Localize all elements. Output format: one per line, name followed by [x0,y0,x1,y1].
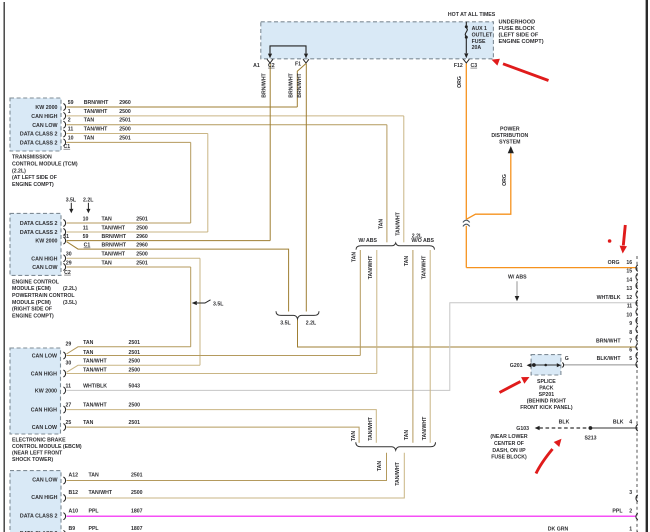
svg-text:TAN: TAN [89,473,100,479]
svg-text:C2: C2 [268,63,275,69]
svg-text:2960: 2960 [136,234,148,240]
svg-text:2: 2 [629,508,632,514]
svg-text:TAN: TAN [83,420,94,426]
svg-text:TAN/WHT: TAN/WHT [84,109,108,115]
svg-text:ENGINE COMPT): ENGINE COMPT) [12,313,54,319]
svg-text:(AT LEFT SIDE OF: (AT LEFT SIDE OF [12,175,57,181]
svg-text:(NEAR LOWER: (NEAR LOWER [490,434,527,440]
svg-text:TAN/WHT: TAN/WHT [102,252,126,258]
svg-text:2500: 2500 [136,252,148,258]
svg-text:TAN: TAN [404,256,410,267]
svg-text:ORG: ORG [457,76,463,88]
svg-text:BRN/WHT: BRN/WHT [297,72,303,97]
svg-text:30: 30 [66,361,72,367]
svg-text:3.5L: 3.5L [213,302,224,308]
svg-text:2501: 2501 [136,260,148,266]
svg-text:9: 9 [629,321,632,327]
svg-text:14: 14 [626,277,632,283]
svg-text:31: 31 [63,234,69,240]
svg-text:TAN: TAN [84,135,95,141]
svg-text:DK GRN: DK GRN [548,527,569,532]
svg-text:C3: C3 [470,63,477,69]
svg-text:C1: C1 [64,144,71,150]
svg-text:DATA CLASS 2: DATA CLASS 2 [20,513,58,519]
svg-text:B12: B12 [69,490,79,496]
svg-text:A10: A10 [69,508,79,514]
svg-text:(NEAR LEFT FRONT: (NEAR LEFT FRONT [12,451,63,457]
svg-text:POWER: POWER [500,126,520,132]
svg-text:20A: 20A [472,45,482,51]
svg-text:2500: 2500 [129,368,141,374]
svg-text:CAN LOW: CAN LOW [32,123,57,129]
svg-text:AUX 1: AUX 1 [472,26,487,32]
svg-text:SP201: SP201 [539,392,555,398]
svg-text:11: 11 [83,225,89,231]
svg-text:BRN/WHT: BRN/WHT [262,72,268,97]
svg-text:6: 6 [629,347,632,353]
svg-text:CAN HIGH: CAN HIGH [31,408,57,414]
svg-text:29: 29 [66,341,72,347]
svg-text:DATA CLASS 2: DATA CLASS 2 [20,141,58,147]
svg-text:4: 4 [629,419,632,425]
svg-text:8: 8 [629,330,632,336]
svg-text:KW 2000: KW 2000 [35,105,57,111]
svg-text:TAN: TAN [102,260,113,266]
svg-text:CAN HIGH: CAN HIGH [31,114,57,120]
svg-text:BLK/WHT: BLK/WHT [597,356,622,362]
svg-text:KW 2000: KW 2000 [35,389,57,395]
svg-text:1807: 1807 [131,508,143,514]
svg-text:BLK: BLK [559,419,570,425]
svg-text:2501: 2501 [129,340,141,346]
svg-text:TAN/WHT: TAN/WHT [84,127,108,133]
svg-text:1807: 1807 [131,526,143,532]
svg-text:2500: 2500 [136,225,148,231]
svg-text:(RIGHT SIDE OF: (RIGHT SIDE OF [12,307,52,313]
svg-text:3.5L: 3.5L [66,197,77,203]
svg-text:2501: 2501 [129,350,141,356]
svg-text:G201: G201 [510,363,523,369]
svg-text:13: 13 [626,286,632,292]
svg-text:CONTROL MODULE (EBCM): CONTROL MODULE (EBCM) [12,444,82,450]
svg-text:TAN/WHT: TAN/WHT [368,416,374,440]
svg-text:2.2L: 2.2L [306,321,317,327]
svg-text:TAN/WHT: TAN/WHT [89,490,113,496]
svg-text:BLK: BLK [613,419,624,425]
svg-text:1: 1 [629,527,632,532]
svg-text:DATA CLASS 2: DATA CLASS 2 [20,132,58,138]
svg-text:W/ ABS: W/ ABS [508,275,527,281]
svg-text:POWERTRAIN CONTROL: POWERTRAIN CONTROL [12,293,75,299]
svg-text:12: 12 [626,295,632,301]
svg-text:TAN/WHT: TAN/WHT [83,359,107,365]
svg-text:TAN/WHT: TAN/WHT [395,211,401,235]
svg-text:10: 10 [68,135,74,141]
svg-text:CENTER OF: CENTER OF [494,441,524,447]
svg-text:W/O ABS: W/O ABS [411,238,434,244]
svg-text:CAN HIGH: CAN HIGH [31,372,57,378]
svg-text:BRN/WHT: BRN/WHT [596,339,621,345]
svg-text:27: 27 [66,403,72,409]
svg-text:SYSTEM: SYSTEM [499,139,520,145]
svg-text:2960: 2960 [119,100,131,106]
svg-text:TAN: TAN [102,216,113,222]
svg-text:DASH, ON I/P: DASH, ON I/P [492,448,526,454]
svg-text:WHT/BLK: WHT/BLK [597,295,621,301]
svg-text:BRN/WHT: BRN/WHT [289,72,295,97]
svg-text:1: 1 [68,109,71,115]
svg-text:S213: S213 [584,436,596,442]
svg-text:DATA CLASS 2: DATA CLASS 2 [20,230,58,236]
svg-text:2500: 2500 [129,403,141,409]
svg-text:2960: 2960 [136,243,148,249]
svg-text:5: 5 [629,356,632,362]
svg-text:F12: F12 [454,63,463,69]
svg-text:(LEFT SIDE OF: (LEFT SIDE OF [499,33,539,39]
svg-text:ORG: ORG [608,260,620,266]
svg-text:TAN: TAN [84,118,95,124]
svg-text:TAN/WHT: TAN/WHT [422,416,428,440]
svg-text:W/ ABS: W/ ABS [358,238,377,244]
svg-text:10: 10 [83,216,89,222]
svg-text:F1: F1 [295,61,301,67]
svg-text:2500: 2500 [129,359,141,365]
svg-text:5043: 5043 [129,383,141,389]
svg-text:2501: 2501 [119,135,131,141]
svg-text:2500: 2500 [119,127,131,133]
svg-text:BRN/WHT: BRN/WHT [84,100,109,106]
svg-text:WHT/BLK: WHT/BLK [83,383,107,389]
svg-text:G103: G103 [516,426,529,432]
svg-text:CAN LOW: CAN LOW [32,425,57,431]
svg-text:PACK: PACK [539,386,554,392]
svg-text:MODULE (PCM): MODULE (PCM) [12,300,51,306]
svg-text:11: 11 [627,304,633,310]
svg-text:(3.5L): (3.5L) [63,300,77,306]
svg-text:TAN/WHT: TAN/WHT [102,225,126,231]
svg-text:16: 16 [626,260,632,266]
svg-text:59: 59 [83,234,89,240]
svg-text:BRN/WHT: BRN/WHT [102,243,127,249]
svg-text:2.2L: 2.2L [83,197,94,203]
svg-text:TAN/WHT: TAN/WHT [422,255,428,279]
svg-text:ELECTRONIC BRAKE: ELECTRONIC BRAKE [12,438,66,444]
svg-text:TAN/WHT: TAN/WHT [83,403,107,409]
svg-text:ENGINE COMPT): ENGINE COMPT) [499,39,544,45]
svg-text:2501: 2501 [136,216,148,222]
svg-text:(2.2L): (2.2L) [63,286,77,292]
svg-text:11: 11 [66,383,72,389]
svg-text:2501: 2501 [119,118,131,124]
svg-text:PPL: PPL [612,508,623,514]
svg-text:(2.2L): (2.2L) [12,168,26,174]
svg-text:2501: 2501 [131,473,143,479]
svg-text:FUSE BLOCK): FUSE BLOCK) [491,455,527,461]
svg-text:FUSE BLOCK: FUSE BLOCK [499,26,535,32]
svg-text:HOT AT ALL TIMES: HOT AT ALL TIMES [448,12,496,18]
svg-text:2501: 2501 [129,420,141,426]
svg-text:CAN LOW: CAN LOW [32,265,57,271]
svg-text:59: 59 [68,100,74,106]
svg-text:MODULE (ECM): MODULE (ECM) [12,286,51,292]
svg-text:PPL: PPL [89,526,100,532]
svg-text:C2: C2 [64,270,71,276]
svg-text:(BEHIND RIGHT: (BEHIND RIGHT [527,399,567,405]
svg-text:G: G [565,356,569,362]
svg-text:TAN/WHT: TAN/WHT [395,461,401,485]
svg-text:TAN: TAN [351,431,357,442]
svg-text:TAN/WHT: TAN/WHT [83,368,107,374]
svg-text:B9: B9 [69,526,76,532]
svg-text:SPLICE: SPLICE [537,379,556,385]
svg-text:TAN: TAN [377,461,383,472]
svg-text:DISTRIBUTION: DISTRIBUTION [491,133,528,139]
svg-text:C1: C1 [84,243,91,249]
svg-text:30: 30 [66,252,72,258]
svg-text:PPL: PPL [89,508,100,514]
svg-text:A1: A1 [253,63,260,69]
svg-text:2500: 2500 [131,490,143,496]
svg-text:TRANSMISSION: TRANSMISSION [12,155,52,161]
svg-text:OUTLET: OUTLET [472,32,494,38]
svg-text:3.5L: 3.5L [280,321,291,327]
svg-text:2: 2 [68,118,71,124]
svg-text:CAN HIGH: CAN HIGH [31,495,57,501]
svg-text:DATA CLASS 2: DATA CLASS 2 [20,221,58,227]
svg-text:TAN: TAN [378,219,384,230]
svg-text:2500: 2500 [119,109,131,115]
svg-text:ENGINE CONTROL: ENGINE CONTROL [12,279,60,285]
svg-text:TAN: TAN [404,430,410,441]
svg-text:3: 3 [629,490,632,496]
svg-text:15: 15 [626,269,632,275]
svg-text:7: 7 [629,339,632,345]
svg-text:TAN: TAN [83,340,94,346]
svg-text:ORG: ORG [502,174,508,186]
svg-text:29: 29 [66,260,72,266]
svg-text:A12: A12 [69,473,79,479]
svg-text:10: 10 [626,312,632,318]
svg-text:FRONT KICK PANEL): FRONT KICK PANEL) [520,405,573,411]
svg-text:UNDERHOOD: UNDERHOOD [499,20,536,26]
svg-text:TAN: TAN [351,252,357,263]
svg-text:CONTROL MODULE (TCM): CONTROL MODULE (TCM) [12,161,78,167]
svg-text:SHOCK TOWER): SHOCK TOWER) [12,457,53,463]
svg-text:CAN HIGH: CAN HIGH [31,256,57,262]
svg-text:KW 2000: KW 2000 [35,239,57,245]
svg-text:BRN/WHT: BRN/WHT [102,234,127,240]
svg-text:25: 25 [66,420,72,426]
svg-text:ENGINE COMPT): ENGINE COMPT) [12,182,54,188]
svg-text:11: 11 [68,127,74,133]
svg-text:FUSE: FUSE [472,39,486,45]
svg-text:CAN LOW: CAN LOW [32,354,57,360]
svg-text:TAN: TAN [83,350,94,356]
svg-text:CAN LOW: CAN LOW [32,478,57,484]
svg-text:TAN/WHT: TAN/WHT [368,255,374,279]
